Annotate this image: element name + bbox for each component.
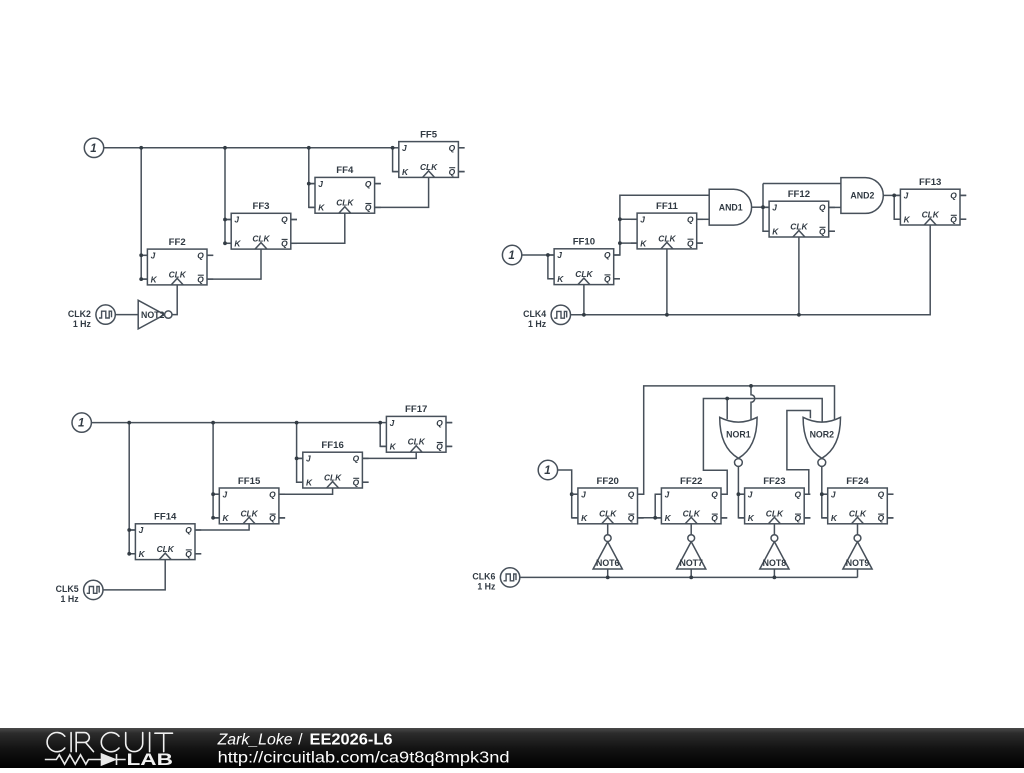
wire — [787, 411, 811, 495]
wire — [763, 206, 769, 208]
svg-text:NOT8: NOT8 — [763, 558, 787, 568]
svg-text:FF3: FF3 — [252, 201, 269, 212]
svg-text:1: 1 — [544, 465, 550, 477]
junction: CLK bus to NOT8 — [773, 576, 777, 580]
junction: FF2 J — [139, 253, 143, 257]
junction: FF2 K — [139, 277, 143, 281]
junction: FF3 J — [223, 218, 227, 222]
svg-text:1 Hz: 1 Hz — [61, 594, 80, 604]
junction: AND2 output / FF13 J — [892, 194, 896, 198]
wire — [620, 218, 637, 220]
junction: FF16 bus on node-1 wire — [295, 421, 299, 425]
svg-text:CLK5: CLK5 — [56, 584, 79, 594]
inverter NOT8 — [760, 535, 789, 569]
wire — [666, 249, 668, 315]
svg-text:FF2: FF2 — [169, 237, 186, 248]
junction: FF10 J — [546, 253, 550, 257]
wire — [607, 524, 609, 535]
junction: FF15 bus on node-1 wire — [211, 421, 215, 425]
junction: FF17 J — [378, 421, 382, 425]
CircuitLab logo: resistor zigzag and diode symbol — [45, 754, 126, 765]
svg-text:/: / — [298, 731, 303, 748]
wire — [583, 285, 585, 315]
svg-text:NOT7: NOT7 — [679, 558, 703, 568]
wire — [703, 399, 822, 495]
svg-text:NOR1: NOR1 — [726, 430, 751, 440]
wire — [393, 148, 399, 172]
wire — [141, 148, 147, 279]
svg-text:FF10: FF10 — [573, 237, 595, 248]
AND gate AND1 — [709, 189, 751, 225]
wire — [773, 569, 775, 577]
wire — [375, 177, 429, 207]
wire — [572, 493, 578, 495]
wire — [195, 524, 249, 530]
svg-text:FF15: FF15 — [238, 476, 261, 487]
junction: FF20 J — [570, 492, 574, 496]
wire — [522, 254, 554, 256]
flip-flop FF12 — [763, 189, 835, 237]
NOR gate NOR1 — [720, 417, 757, 466]
svg-text:NOR2: NOR2 — [810, 430, 835, 440]
wire — [614, 278, 620, 280]
flip-flop FF4 — [309, 165, 381, 213]
wire — [91, 422, 380, 424]
junction: CLK bus to FF12.CLK — [797, 313, 801, 317]
junction: line A to NOR1 input — [749, 384, 753, 388]
wire — [726, 399, 728, 420]
svg-text:Zark_Loke: Zark_Loke — [217, 731, 293, 748]
wire — [297, 423, 303, 483]
svg-text:FF24: FF24 — [846, 476, 869, 487]
flip-flop FF14 — [129, 512, 201, 560]
wire — [291, 219, 297, 221]
wire — [804, 517, 810, 519]
junction: line B to NOR1 input — [725, 397, 729, 401]
svg-text:LAB: LAB — [127, 751, 173, 768]
wire — [960, 194, 966, 196]
clock source CLK5 — [56, 580, 103, 604]
wire — [103, 560, 165, 590]
wire — [690, 569, 692, 577]
wire — [558, 470, 578, 518]
wire — [129, 423, 135, 554]
junction: FF23 J — [737, 492, 741, 496]
wire — [614, 195, 710, 255]
wire — [279, 517, 285, 519]
wire — [894, 195, 900, 219]
flip-flop FF10 — [548, 237, 620, 285]
inverter NOT9 — [843, 535, 872, 569]
wire — [380, 423, 386, 447]
wire — [620, 242, 637, 244]
wire — [309, 148, 315, 208]
junction: FF3 bus on node-1 wire — [223, 146, 227, 150]
svg-text:FF23: FF23 — [763, 476, 785, 487]
wire — [104, 147, 393, 149]
wire — [822, 466, 828, 517]
footer background bar — [0, 728, 1024, 768]
clock source CLK2 — [68, 305, 115, 329]
junction: FF11 K — [618, 241, 622, 245]
svg-text:1 Hz: 1 Hz — [73, 319, 92, 329]
wire — [763, 184, 769, 232]
flip-flop FF15 — [213, 476, 285, 524]
wire — [225, 148, 231, 244]
wire — [207, 254, 213, 256]
wire — [362, 452, 416, 458]
svg-text:AND1: AND1 — [719, 202, 743, 212]
wire — [571, 225, 931, 315]
wire — [752, 206, 763, 208]
flip-flop FF20 — [572, 476, 644, 524]
clock source CLK4 — [523, 305, 570, 329]
junction: CLK bus to FF11.CLK — [665, 313, 669, 317]
NOR gate NOR2 — [803, 417, 840, 466]
wire — [225, 219, 231, 221]
junction: FF2 bus on node-1 wire — [139, 146, 143, 150]
svg-text:FF5: FF5 — [420, 129, 438, 140]
flip-flop FF2 — [141, 237, 213, 285]
node 1 (circuit 1) — [84, 138, 103, 157]
wire — [773, 524, 775, 535]
svg-text:FF14: FF14 — [154, 512, 177, 523]
svg-text:1: 1 — [78, 418, 84, 430]
wire — [607, 569, 609, 577]
wire — [638, 386, 835, 494]
wire — [446, 445, 452, 447]
svg-text:AND2: AND2 — [850, 191, 874, 201]
wire — [887, 493, 893, 495]
flip-flop FF24 — [822, 476, 894, 524]
junction: FF5 J — [391, 146, 395, 150]
wire — [960, 218, 966, 220]
svg-text:NOT9: NOT9 — [846, 558, 870, 568]
wire — [375, 183, 381, 185]
wire — [195, 553, 201, 555]
wire — [362, 481, 368, 483]
junction: FF16 J — [295, 457, 299, 461]
inverter NOT6 — [593, 535, 622, 569]
wire — [721, 517, 727, 519]
AND gate AND2 — [841, 178, 883, 214]
wire — [638, 517, 662, 519]
wire — [213, 493, 219, 495]
clock source CLK6 — [472, 568, 519, 592]
flip-flop FF16 — [297, 440, 369, 488]
junction: FF4 J — [307, 182, 311, 186]
junction: FF24 J — [820, 492, 824, 496]
wire — [297, 457, 303, 459]
flip-flop FF17 — [380, 404, 452, 452]
flip-flop FF3 — [225, 201, 297, 249]
svg-text:FF12: FF12 — [788, 189, 810, 200]
wire — [883, 194, 894, 196]
wire — [822, 493, 828, 495]
node 1 (circuit 2) — [502, 245, 521, 264]
junction: FF15 K — [211, 516, 215, 520]
inverter NOT7 — [677, 535, 706, 569]
svg-text:http://circuitlab.com/ca9t8q8m: http://circuitlab.com/ca9t8q8mpk3nd — [218, 749, 510, 766]
wire — [458, 171, 464, 173]
wire — [115, 314, 138, 316]
svg-text:1 Hz: 1 Hz — [477, 582, 496, 592]
svg-text:1: 1 — [90, 143, 96, 155]
wire — [738, 493, 744, 495]
svg-text:FF11: FF11 — [656, 201, 679, 212]
wire — [829, 206, 841, 208]
wire — [129, 529, 135, 531]
svg-text:FF13: FF13 — [919, 177, 941, 188]
svg-text:EE2026-L6: EE2026-L6 — [310, 731, 393, 748]
wire — [857, 524, 859, 535]
node 1 (circuit 4) — [538, 460, 557, 479]
wire — [829, 230, 835, 232]
svg-text:FF4: FF4 — [336, 165, 354, 176]
wire — [141, 254, 147, 256]
svg-text:NOT2: NOT2 — [141, 310, 165, 320]
svg-text:FF16: FF16 — [321, 440, 343, 451]
svg-text:1 Hz: 1 Hz — [528, 319, 547, 329]
junction: FF11 J — [618, 217, 622, 221]
junction: FF14 J — [127, 528, 131, 532]
svg-text:CLK4: CLK4 — [523, 309, 546, 319]
CircuitLab logo: CIRCUIT wordmark — [47, 733, 172, 752]
flip-flop FF13 — [894, 177, 966, 225]
svg-text:1: 1 — [508, 250, 514, 262]
wire — [690, 524, 692, 535]
svg-text:CLK6: CLK6 — [472, 572, 495, 582]
wire — [213, 423, 219, 518]
junction: FF22 K — [653, 516, 657, 520]
wire — [279, 488, 333, 494]
wire — [697, 218, 710, 220]
svg-text:NOT6: NOT6 — [596, 558, 620, 568]
wire — [446, 422, 452, 424]
junction: AND1 output / FF12 J — [761, 205, 765, 209]
junction: FF14 bus on node-1 wire — [127, 421, 131, 425]
flip-flop FF11 — [631, 201, 703, 249]
wire — [520, 576, 858, 578]
junction: CLK bus to FF10.CLK — [582, 313, 586, 317]
wire — [291, 213, 345, 243]
wire — [857, 569, 859, 577]
junction: CLK bus to NOT7 — [689, 576, 693, 580]
flip-flop FF22 — [655, 476, 727, 524]
wire — [894, 194, 900, 196]
wire — [309, 183, 315, 185]
flip-flop FF23 — [738, 476, 810, 524]
wire — [751, 386, 755, 419]
wire — [738, 466, 744, 517]
junction: FF4 bus on node-1 wire — [307, 146, 311, 150]
junction: FF14 K — [127, 552, 131, 556]
wire — [887, 517, 893, 519]
inverter NOT2 — [138, 300, 172, 329]
svg-text:FF17: FF17 — [405, 404, 427, 415]
wire — [458, 147, 464, 149]
flip-flop FF5 — [393, 129, 465, 177]
junction: CLK bus to NOT6 — [606, 576, 610, 580]
wire — [798, 237, 800, 315]
svg-text:FF22: FF22 — [680, 476, 702, 487]
junction: FF3 K — [223, 241, 227, 245]
wire — [207, 249, 261, 279]
node 1 (circuit 3) — [72, 413, 91, 432]
wire — [172, 285, 177, 315]
svg-text:FF20: FF20 — [596, 476, 618, 487]
wire — [548, 255, 554, 279]
svg-text:CLK2: CLK2 — [68, 309, 91, 319]
wire — [655, 494, 661, 518]
wire — [763, 183, 841, 185]
junction: FF15 J — [211, 492, 215, 496]
wire — [697, 242, 703, 244]
